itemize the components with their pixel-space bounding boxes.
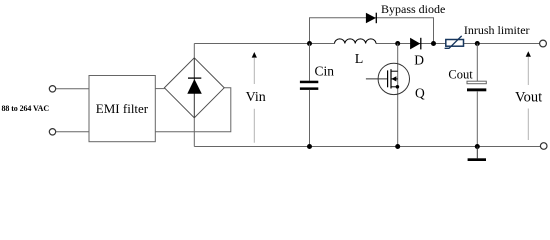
thermistor inrush limiter body — [446, 40, 464, 47]
svg-text:Vout: Vout — [515, 90, 542, 106]
MOSFET drain stub — [391, 70, 398, 72]
wire Cout top — [476, 44, 478, 82]
svg-text:88 to 264 VAC: 88 to 264 VAC — [2, 104, 50, 113]
svg-text:L: L — [355, 52, 364, 67]
wire bypass riser left — [310, 18, 434, 44]
wire AC bottom to EMI box — [56, 131, 89, 133]
Vin arrow line upper — [253, 58, 255, 84]
terminal Vout minus — [540, 143, 547, 150]
junction dot bypass right — [431, 41, 436, 46]
junction dot source bottom — [395, 144, 400, 149]
wire Cin bottom — [309, 90, 311, 147]
junction dot bypass left / Cin — [307, 41, 312, 46]
svg-text:Cout: Cout — [448, 67, 473, 81]
wire EMI box to bridge left vertex — [155, 88, 164, 90]
EMI filter box — [89, 76, 155, 142]
thermistor diagonal — [445, 36, 462, 48]
wire bridge top vertex up to main rail — [193, 44, 195, 58]
svg-text:D: D — [414, 53, 424, 68]
bridge rectifier diamond — [164, 58, 224, 118]
wire main rail segment 1 — [194, 43, 334, 45]
diode D triangle — [410, 38, 420, 50]
Vout arrow line lower — [527, 109, 529, 141]
wire Cin top — [309, 44, 311, 81]
Vout arrow line upper — [527, 57, 529, 85]
MOSFET channel bar — [390, 69, 392, 88]
terminal Vout plus — [540, 40, 547, 47]
bypass diode triangle — [366, 13, 376, 24]
junction dot Cout bottom — [475, 144, 480, 149]
Vin arrow head — [252, 52, 257, 58]
svg-text:Vin: Vin — [246, 90, 266, 105]
terminal AC bottom — [49, 129, 55, 135]
svg-text:Inrush limiter: Inrush limiter — [464, 23, 530, 37]
diode D cathode bar — [420, 38, 422, 50]
capacitor Cout bottom plate — [467, 88, 486, 91]
capacitor Cout top plate (hollow) — [467, 81, 486, 84]
bridge diode triangle — [187, 79, 202, 94]
svg-text:Bypass diode: Bypass diode — [381, 2, 445, 16]
wire bottom rail — [194, 146, 540, 148]
svg-text:EMI filter: EMI filter — [96, 101, 149, 116]
bypass diode cathode bar — [375, 13, 377, 24]
MOSFET body stub — [391, 78, 398, 80]
junction dot body-source — [396, 85, 400, 89]
wire main rail segment 2 (L to thermistor) — [376, 43, 446, 45]
wire main rail segment 3 (thermistor to output terminal) — [464, 43, 540, 45]
MOSFET body arrow — [391, 76, 396, 81]
wire MOSFET drain-source trunk — [397, 44, 399, 147]
capacitor Cin bottom plate — [300, 87, 318, 90]
MOSFET source stub — [391, 86, 398, 88]
terminal AC top — [49, 86, 55, 92]
Vout arrow head — [526, 51, 531, 57]
wire Cout bottom — [476, 91, 478, 146]
junction dot Cout top — [475, 41, 480, 46]
MOSFET gate bar — [387, 70, 389, 87]
ground bar — [468, 158, 486, 161]
wire bridge bottom vertex down — [193, 118, 195, 147]
wire EMI box bottom output to bridge right vertex — [155, 88, 231, 132]
svg-text:Cin: Cin — [315, 63, 335, 78]
junction dot drain — [395, 41, 400, 46]
Vin arrow line lower — [253, 109, 255, 143]
MOSFET Q circle — [378, 63, 409, 94]
inductor L coil — [335, 39, 377, 44]
MOSFET gate stub wire — [366, 78, 388, 80]
wire AC top to EMI box — [56, 88, 89, 90]
bridge diode vertical wire — [193, 58, 195, 118]
svg-text:Q: Q — [415, 85, 425, 100]
ground stem — [476, 147, 478, 159]
bridge diode cathode bar — [188, 77, 201, 79]
capacitor Cin top plate — [300, 81, 318, 84]
junction dot Cin bottom — [307, 144, 312, 149]
